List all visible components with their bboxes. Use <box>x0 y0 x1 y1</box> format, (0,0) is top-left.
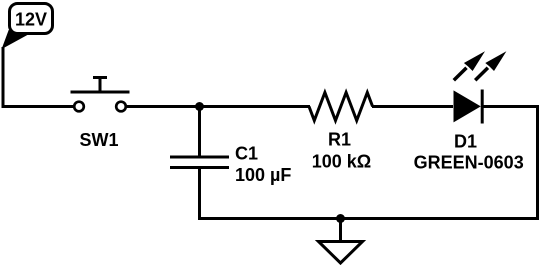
ground junction dot <box>336 214 345 223</box>
net flag 12V <box>3 4 53 49</box>
svg-text:R1: R1 <box>328 130 351 150</box>
switch SW1 (pushbutton) <box>71 78 130 112</box>
node A junction dot (SW1/C1/R1) <box>195 102 204 111</box>
capacitor C1 <box>170 157 229 168</box>
resistor R1 <box>309 93 373 121</box>
LED D1 <box>454 51 507 123</box>
wire SW1 to R1 (through node A) <box>126 105 310 108</box>
svg-text:GREEN-0603: GREEN-0603 <box>414 152 524 172</box>
svg-text:C1: C1 <box>235 144 258 164</box>
wire bottom rail <box>200 217 540 220</box>
wire right rail vertical <box>536 105 539 220</box>
svg-text:12V: 12V <box>15 10 47 30</box>
wire R1 to D1 <box>372 105 453 108</box>
svg-text:SW1: SW1 <box>79 130 118 150</box>
ground stem wire <box>339 219 342 244</box>
svg-text:100 µF: 100 µF <box>235 165 291 185</box>
wire 12V flag to SW1 (left vertical + horizontal) <box>3 47 74 107</box>
svg-text:100 kΩ: 100 kΩ <box>312 151 371 171</box>
svg-text:D1: D1 <box>454 131 477 151</box>
wire D1 to right rail <box>483 105 539 108</box>
wire C1 top lead <box>198 107 201 158</box>
wire C1 bottom lead <box>198 168 201 221</box>
ground symbol <box>319 242 363 264</box>
